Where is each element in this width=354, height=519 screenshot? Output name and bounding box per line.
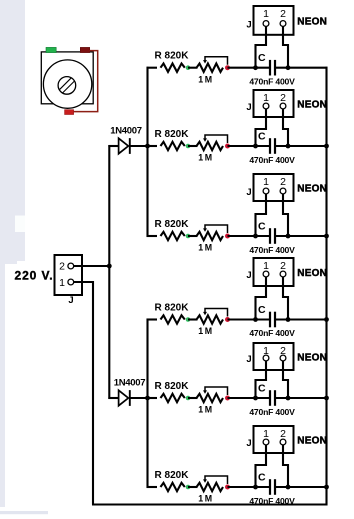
svg-text:J: J — [246, 20, 251, 31]
svg-text:1 M: 1 M — [198, 153, 212, 163]
diode D1 1N4007 — [110, 126, 141, 154]
svg-text:NEON: NEON — [297, 16, 327, 27]
wire: J3 pin 1 to cap node — [256, 109, 267, 146]
diode D2 1N4007 — [114, 378, 145, 406]
svg-text:470nF 400V: 470nF 400V — [249, 496, 295, 506]
wire: left bus rows 4-6 — [146, 319, 148, 489]
wire: J6 pin 1 to cap node — [256, 361, 267, 398]
svg-text:J: J — [246, 102, 251, 113]
resistor R5 820K — [155, 381, 190, 402]
node: P2 wiper junction (red) — [225, 144, 230, 149]
svg-text:1: 1 — [263, 92, 269, 104]
wire: capacitor C1 to right bus — [275, 67, 328, 69]
wire: left bus to R2 — [147, 145, 158, 147]
svg-text:R 820K: R 820K — [155, 381, 190, 392]
svg-text:C: C — [258, 382, 266, 394]
svg-text:470nF 400V: 470nF 400V — [249, 155, 295, 165]
capacitor C5 470nF 400V — [249, 382, 295, 417]
wire: bottom return rail — [92, 503, 328, 505]
junction: pin1/cap left — [253, 65, 258, 70]
pin 1 of J3 — [263, 92, 269, 109]
svg-text:NEON: NEON — [297, 268, 327, 279]
node: R5 / P5 junction (green) — [186, 396, 191, 401]
svg-text:NEON: NEON — [297, 436, 327, 447]
resistor R3 820K — [155, 219, 190, 240]
wire: J7 pin 2 to cap node — [283, 445, 288, 487]
node: R3 / P3 junction (green) — [186, 234, 191, 239]
svg-text:2: 2 — [280, 428, 286, 440]
wire: red node to capacitor C6 — [228, 486, 271, 488]
trimmer pad 3 (red, bottom) — [65, 110, 74, 115]
svg-text:1 M: 1 M — [198, 405, 212, 415]
node: P5 wiper junction (red) — [225, 396, 230, 401]
wire: capacitor C3 to right bus — [275, 235, 328, 237]
potentiometer P2 1M (rheostat) — [197, 135, 228, 163]
capacitor C6 470nF 400V — [249, 471, 295, 506]
svg-text:J: J — [68, 295, 73, 306]
connector J6 (neon lamp) — [254, 343, 294, 370]
capacitor C4 470nF 400V — [249, 304, 295, 338]
junction: pin1/cap left — [253, 396, 258, 401]
wire: green node to P1 — [188, 67, 198, 69]
wire: green node to P3 — [188, 235, 198, 237]
wire: J5 pin 1 to cap node — [256, 277, 267, 320]
wire: J1 pin 1 down-left rail — [74, 282, 94, 505]
junction: channel 3 on right bus — [324, 234, 329, 239]
wire: capacitor C6 to right bus — [275, 486, 328, 488]
pin 1 of J4 — [263, 176, 269, 194]
pin 2 of J6 — [280, 345, 286, 361]
svg-text:2: 2 — [280, 8, 286, 20]
pin 1 of J1 — [59, 277, 74, 289]
svg-text:2: 2 — [280, 92, 286, 104]
wire: J4 pin 2 to cap node — [283, 194, 288, 236]
svg-text:470nF 400V: 470nF 400V — [249, 407, 295, 417]
wire: green node to P5 — [188, 397, 198, 399]
junction: D1 output on left bus — [145, 144, 150, 149]
svg-text:470nF 400V: 470nF 400V — [249, 328, 295, 338]
wire: J5 pin 2 to cap node — [283, 277, 288, 320]
node: P6 wiper junction (red) — [225, 485, 230, 490]
svg-text:J: J — [246, 270, 251, 281]
junction: pin1/cap left — [253, 485, 258, 490]
svg-text:1 M: 1 M — [198, 326, 212, 336]
node A junction (pin2 / feeder) — [107, 264, 112, 269]
wire: left bus rows 1-3 — [146, 67, 148, 237]
capacitor C2 470nF 400V — [249, 130, 295, 165]
wire: red node to capacitor C5 — [228, 397, 271, 399]
node: P3 wiper junction (red) — [225, 234, 230, 239]
node: P4 wiper junction (red) — [225, 317, 230, 322]
pin 2 of J2 — [280, 8, 286, 26]
svg-text:R 820K: R 820K — [155, 219, 190, 230]
red wire: trimmer pad 2 to pad 3 — [74, 51, 98, 112]
junction: pin2/cap right — [286, 144, 291, 149]
junction: pin1/cap left — [253, 234, 258, 239]
svg-text:1N4007: 1N4007 — [110, 126, 141, 137]
junction: pin2/cap right — [286, 65, 291, 70]
wire: J6 pin 2 to cap node — [283, 361, 288, 398]
svg-text:NEON: NEON — [297, 100, 327, 111]
svg-text:2: 2 — [280, 260, 286, 272]
junction: pin1/cap left — [253, 317, 258, 322]
pin 2 of J5 — [280, 260, 286, 277]
wire: left bus to R4 — [147, 318, 158, 320]
pin 2 of J1 — [59, 261, 74, 273]
svg-text:1 M: 1 M — [198, 74, 212, 84]
wire: J2 pin 2 to cap node — [283, 26, 288, 67]
svg-text:J: J — [246, 187, 251, 198]
wire: capacitor C5 to right bus — [275, 397, 328, 399]
svg-text:C: C — [258, 130, 266, 142]
capacitor C1 470nF 400V — [249, 52, 295, 87]
svg-text:J: J — [246, 354, 251, 365]
capacitor C3 470nF 400V — [249, 220, 295, 255]
wire: diode D2 cathode to left bus — [130, 397, 149, 399]
pin 2 of J7 — [280, 428, 286, 445]
svg-text:470nF 400V: 470nF 400V — [249, 77, 295, 87]
svg-text:1: 1 — [59, 277, 65, 289]
potentiometer P4 1M (rheostat) — [197, 309, 228, 337]
svg-text:470nF 400V: 470nF 400V — [249, 245, 295, 255]
node: P1 wiper junction (red) — [225, 65, 230, 70]
node: R6 / P6 junction (green) — [186, 485, 191, 490]
junction: pin2/cap right — [286, 485, 291, 490]
wire: vertical feeder D1..node A..D2 (x=109) — [108, 145, 110, 399]
wire: left bus to R5 — [147, 397, 158, 399]
wire: red node to capacitor C1 — [228, 67, 271, 69]
trimmer potentiometer (PCB footprint) — [41, 52, 93, 108]
pin 2 of J4 — [280, 176, 286, 194]
connector J1 (220 V. input) — [55, 255, 83, 295]
connector J4 (neon lamp) — [254, 174, 294, 201]
trimmer pad 2 (dark red) — [80, 47, 89, 52]
svg-text:2: 2 — [59, 261, 65, 273]
wire: green node to P2 — [188, 145, 198, 147]
junction: pin2/cap right — [286, 396, 291, 401]
svg-text:C: C — [258, 52, 266, 64]
wire: left bus to R3 — [147, 235, 158, 237]
junction: channel 6 on right bus — [324, 485, 329, 490]
wire: J3 pin 2 to cap node — [283, 109, 288, 146]
pin 1 of J2 — [263, 8, 269, 26]
svg-text:C: C — [258, 304, 266, 316]
wire: green node to P6 — [188, 486, 198, 488]
junction: pin2/cap right — [286, 234, 291, 239]
svg-text:R 820K: R 820K — [155, 51, 190, 62]
wire: red node to capacitor C4 — [228, 318, 271, 320]
svg-text:1: 1 — [263, 8, 269, 20]
wire: J1 pin 2 to node A (x=109) — [74, 265, 110, 267]
wire: J4 pin 1 to cap node — [256, 194, 267, 236]
node: R2 / P2 junction (green) — [186, 144, 191, 149]
resistor R4 820K — [155, 302, 190, 323]
svg-text:1: 1 — [263, 260, 269, 272]
wire: capacitor C2 to right bus — [275, 145, 328, 147]
wire: J2 pin 1 to cap node — [256, 26, 267, 67]
wire: feeder to diode D2 anode — [108, 397, 118, 399]
junction: channel 5 on right bus — [324, 396, 329, 401]
svg-text:R 820K: R 820K — [155, 470, 190, 481]
svg-text:NEON: NEON — [297, 353, 327, 364]
potentiometer P6 1M (rheostat) — [197, 476, 228, 504]
pin 1 of J7 — [263, 428, 269, 445]
svg-text:1 M: 1 M — [198, 494, 212, 504]
svg-text:1: 1 — [263, 176, 269, 188]
pin 1 of J6 — [263, 345, 269, 361]
node: R4 / P4 junction (green) — [186, 317, 191, 322]
wire: feeder to diode D1 anode — [108, 145, 118, 147]
wire: red node to capacitor C2 — [228, 145, 271, 147]
svg-text:C: C — [258, 220, 266, 232]
wire: right bus (neutral return) — [325, 67, 327, 506]
connector J2 (neon lamp) — [254, 6, 294, 35]
connector J3 (neon lamp) — [254, 90, 294, 117]
junction: channel 2 on right bus — [324, 144, 329, 149]
wire: J7 pin 1 to cap node — [256, 445, 267, 487]
svg-text:1N4007: 1N4007 — [114, 378, 145, 389]
wire: green node to P4 — [188, 318, 198, 320]
wire: left bus to R6 — [147, 486, 158, 488]
potentiometer P3 1M (rheostat) — [197, 225, 228, 253]
wire: left bus to R1 — [147, 67, 158, 69]
svg-text:J: J — [246, 438, 251, 449]
junction: channel 4 on right bus — [324, 317, 329, 322]
resistor R2 820K — [155, 129, 190, 150]
svg-text:220 V.: 220 V. — [15, 268, 54, 282]
svg-text:NEON: NEON — [297, 184, 327, 195]
junction: pin1/cap left — [253, 144, 258, 149]
pin 2 of J3 — [280, 92, 286, 109]
svg-text:1 M: 1 M — [198, 243, 212, 253]
connector J7 (neon lamp) — [254, 426, 294, 453]
node: R1 / P1 junction (green) — [186, 65, 191, 70]
wire: diode D1 cathode to left bus — [130, 145, 149, 147]
svg-text:R 820K: R 820K — [155, 302, 190, 313]
junction: pin2/cap right — [286, 317, 291, 322]
potentiometer P5 1M (rheostat) — [197, 387, 228, 415]
svg-text:R 820K: R 820K — [155, 129, 190, 140]
resistor R6 820K — [155, 470, 190, 491]
resistor R1 820K — [155, 51, 190, 72]
wire: capacitor C4 to right bus — [275, 318, 328, 320]
wire: red node to capacitor C3 — [228, 235, 271, 237]
svg-text:2: 2 — [280, 176, 286, 188]
svg-text:C: C — [258, 471, 266, 483]
trimmer pad 1 (green) — [46, 47, 56, 52]
svg-text:1: 1 — [263, 428, 269, 440]
junction: D2 output on left bus — [145, 396, 150, 401]
connector J5 (neon lamp) — [254, 258, 294, 286]
potentiometer P1 1M (rheostat) — [197, 57, 228, 85]
pin 1 of J5 — [263, 260, 269, 277]
